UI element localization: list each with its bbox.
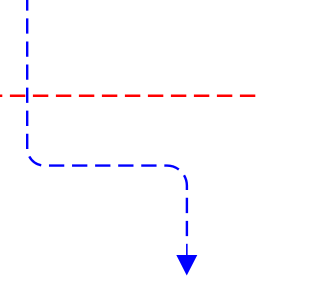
arrowhead (filled triangle pointing down) xyxy=(176,255,197,276)
arrow stem xyxy=(186,244,188,256)
red dashed horizontal reference line xyxy=(0,95,258,97)
wire: blue dashed elbow path (down, right, down) xyxy=(27,0,187,237)
